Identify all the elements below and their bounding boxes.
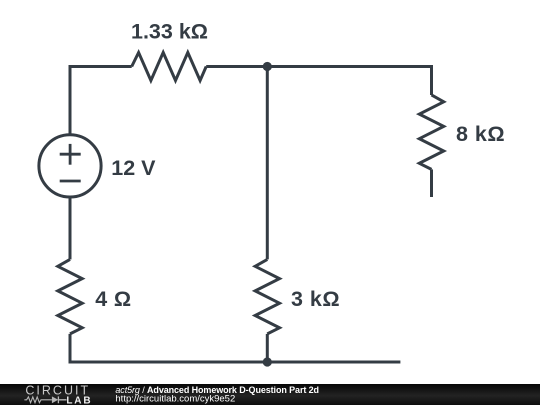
V1 minus sign <box>60 180 81 183</box>
node B junction dot <box>263 357 272 366</box>
svg-text:4 Ω: 4 Ω <box>95 287 131 311</box>
resistor R2 4 Ohm (vertical zigzag) <box>58 259 82 334</box>
wire: V1 top lead up and across to R1 left terminal <box>70 67 132 136</box>
svg-text:LAB: LAB <box>66 395 92 405</box>
resistor R1 1.33 kOhm (horizontal zigzag) <box>132 53 207 81</box>
wire: R4 bottom open stub <box>430 169 433 197</box>
V1 plus sign <box>60 144 81 181</box>
wire: node A to top-right corner and down to R4 top <box>267 67 431 96</box>
wire: V1 bottom lead down to R2 top <box>69 197 72 260</box>
resistor R4 8 kOhm (vertical zigzag) <box>419 95 443 169</box>
svg-text:3 kΩ: 3 kΩ <box>291 287 340 311</box>
svg-text:1.33 kΩ: 1.33 kΩ <box>131 19 208 43</box>
logo resistor zigzag symbol <box>24 397 52 403</box>
node A junction dot <box>263 62 272 71</box>
resistor R3 3 kOhm (vertical zigzag) <box>255 259 279 334</box>
wire: R1 right terminal to node A <box>206 65 267 68</box>
wire: R3 bottom terminal down to bottom node B <box>266 334 269 362</box>
svg-text:12 V: 12 V <box>111 156 156 180</box>
svg-text:http://circuitlab.com/cyk9e52: http://circuitlab.com/cyk9e52 <box>115 394 235 405</box>
wire: node A down to R3 top terminal <box>266 67 269 260</box>
wire: bottom stub right of node B <box>267 361 400 364</box>
logo diode symbol <box>52 396 58 403</box>
voltage source V1 circle <box>39 135 101 197</box>
wire: R2 bottom down, around bottom-left corner, to node B <box>70 334 267 362</box>
svg-text:8 kΩ: 8 kΩ <box>456 122 505 146</box>
